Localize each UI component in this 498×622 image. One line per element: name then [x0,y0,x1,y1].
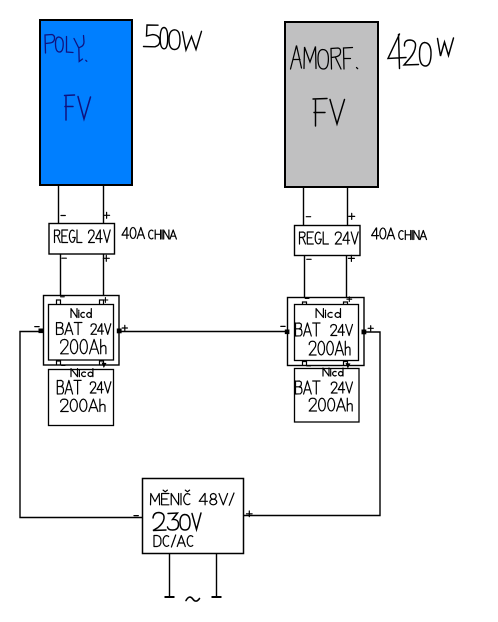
terminal tab L bottom- [57,361,61,365]
PV panel P1 (POLY 500W) [40,20,132,185]
text 24V (bat2L) [90,382,111,393]
text 24V (bat1R) [331,325,353,336]
label China (left) [149,230,177,239]
label ~ (AC) [186,597,200,601]
text Nicd (bat1R) [316,309,340,318]
node bat1R minus [285,330,290,335]
wire inverter AC out L [169,554,171,598]
node bat1R plus [362,330,367,335]
label - (bat2R link) [307,365,311,367]
wire REGL2 to battery group R (-) [304,255,306,298]
wire REGL2 to battery group R (+) [346,255,348,298]
label AMORF. [291,46,358,70]
label 420 W [388,34,454,69]
terminal tab L top+ [100,300,104,305]
label - (inverter left) [134,515,138,517]
label - (bat group L top) [61,296,65,298]
label FV (amorf) [313,99,345,127]
battery BAT1 R [295,305,359,361]
inverter U1 (MENIC 48V / 230V DC/AC) [143,479,244,554]
label + (inverter right) [247,511,253,517]
arrow (bat2R top+) [346,363,351,369]
label 40A (left) [122,228,145,239]
wire bat1R to inverter (right run) [244,332,381,516]
text BAT (bat1L) [57,323,82,335]
label 230V [153,513,201,531]
text 200Ah (bat2L) [61,399,105,411]
label - (REGL1 out) [62,257,66,259]
text 200Ah (bat1L) [61,339,106,353]
wire panel2 to REGL2 (+) [347,187,349,225]
terminal tab R top- [303,302,307,307]
label - (REGL1 in) [61,215,65,217]
label + (REGL1 in) [104,212,110,218]
wire panel1 to REGL1 (+) [103,186,105,223]
label 40A (right) [372,228,395,239]
label POLY. [45,35,87,62]
text 24V (bat2R) [331,382,352,393]
label - (bat2L link) [62,364,66,366]
node bat1L minus [39,329,44,334]
terminal tab R top+ [344,302,348,307]
terminal tab L top- [57,300,61,305]
text BAT (bat2L) [57,380,81,394]
regulator REGL2 [295,226,361,256]
wire panel2 to REGL2 (-) [303,187,305,225]
label - (bat group R top) [305,298,309,300]
label + (REGL2 out) [348,255,354,261]
node bat1L plus [117,329,122,334]
label - (REGL2 in) [306,216,310,218]
terminal bar R [212,596,222,598]
battery BAT1 L [49,305,114,361]
label + (bat group L top) [103,298,108,303]
battery BAT2 L [49,370,114,426]
text MENIC 48V/ [151,490,235,505]
label + (bat group R top) [347,297,352,302]
wire bat1L to inverter (left run) [20,332,143,518]
label - (bat1R left) [281,325,285,327]
text Nicd (bat2R) [323,368,343,376]
arrow (bat2L top+) [102,363,107,369]
terminal tab L bottom+ [100,361,104,365]
text DC/AC [154,535,193,547]
wire REGL1 to battery group L (-) [60,254,62,296]
battery group box L [44,296,120,366]
text Nicd (bat2L) [71,369,93,377]
label - (REGL2 out) [307,258,311,260]
label China (right) [399,231,427,240]
text 24V (bat1L) [91,324,111,335]
text REGL1 [55,230,111,243]
terminal bar L [165,596,175,598]
text BAT (bat2R) [296,381,321,394]
label FV (poly) [65,95,91,120]
text Nicd (bat1L) [71,309,91,318]
label + (REGL1 out) [103,255,109,261]
wire battery mid link [122,331,288,333]
PV panel P2 (AMORF 420W) [285,22,378,187]
battery group box R [288,298,365,366]
label 500W [144,25,202,50]
label + (REGL2 in) [349,213,355,219]
wire REGL1 to battery group L (+) [103,254,105,296]
terminal tab R bottom- [303,362,307,366]
wire inverter AC out R [216,554,218,598]
text 200Ah (bat1R) [309,341,350,355]
text 200Ah (bat2R) [309,398,352,411]
wire panel1 to REGL1 (-) [58,186,60,223]
battery BAT2 R [295,369,360,423]
regulator REGL1 [49,224,115,255]
label + (bat1R right) [368,326,373,331]
terminal tab R bottom+ [344,362,348,366]
text BAT (bat1R) [296,323,321,336]
label + (bat1L right) [122,325,127,330]
text REGL2 [300,232,359,244]
label - (bat1L left) [35,326,39,328]
